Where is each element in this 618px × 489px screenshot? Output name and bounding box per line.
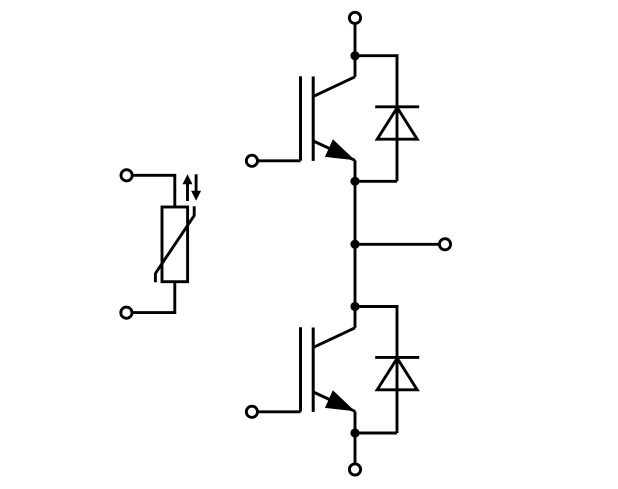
junction dot (top node) (350, 51, 359, 60)
wire (emitter Q1 to node) (354, 160, 357, 306)
wire (diode D2 branch, upper) (355, 307, 397, 434)
junction dot (emitter Q1 node) (350, 177, 359, 186)
wire (emitter Q2 to bottom terminal) (354, 411, 357, 463)
IGBT Q2 emitter lead (313, 392, 355, 411)
terminal circle (thermistor top lead) (121, 170, 132, 181)
IGBT Q1 emitter lead (313, 141, 355, 160)
arrow down (bidirectional current mark) (191, 174, 201, 200)
wire (gate lead Q1) (258, 159, 300, 162)
terminal circle (gate Q2) (246, 406, 257, 417)
IGBT Q1 collector lead (313, 77, 355, 97)
arrow up (bidirectional current mark) (183, 174, 193, 201)
wire (output lead) (355, 243, 438, 246)
junction dot (emitter Q2 node) (350, 428, 359, 437)
diode D2 (freewheeling, cathode bar) (375, 356, 419, 359)
diode D1 (triangle) (377, 108, 417, 140)
IGBT Q2 emitter arrow (325, 390, 355, 411)
junction dot (collector Q2 node) (350, 302, 359, 311)
wire (diode D1 branch, upper) (355, 56, 397, 182)
terminal circle (thermistor bottom lead) (121, 307, 132, 318)
wire (top terminal to node) (354, 24, 357, 76)
terminal circle (top collector terminal) (349, 12, 360, 23)
terminal circle (output) (439, 239, 450, 250)
IGBT Q2 gate bar (299, 327, 302, 411)
IGBT Q2 collector lead (313, 328, 355, 348)
terminal circle (bottom emitter terminal) (349, 464, 360, 475)
wire (thermistor top lead) (133, 175, 175, 207)
wire (diode D2 branch, lower) (355, 432, 397, 435)
diode D2 (triangle) (377, 358, 417, 390)
IGBT Q1 emitter arrow (325, 139, 355, 160)
thermistor diagonal stroke (155, 206, 194, 282)
wire (thermistor bottom lead) (133, 282, 175, 313)
wire (gate lead Q2) (258, 410, 300, 413)
junction dot (output node) (350, 240, 359, 249)
IGBT Q2 body bar (312, 328, 315, 412)
wire (diode D1 branch, lower) (355, 180, 397, 183)
thermistor body (rectangle) (162, 207, 188, 282)
terminal circle (gate Q1) (246, 155, 257, 166)
IGBT Q1 gate bar (299, 76, 302, 160)
IGBT Q1 body bar (312, 77, 315, 161)
diode D1 (freewheeling, cathode bar) (375, 105, 419, 108)
wire (node to Q2 collector) (354, 307, 357, 328)
